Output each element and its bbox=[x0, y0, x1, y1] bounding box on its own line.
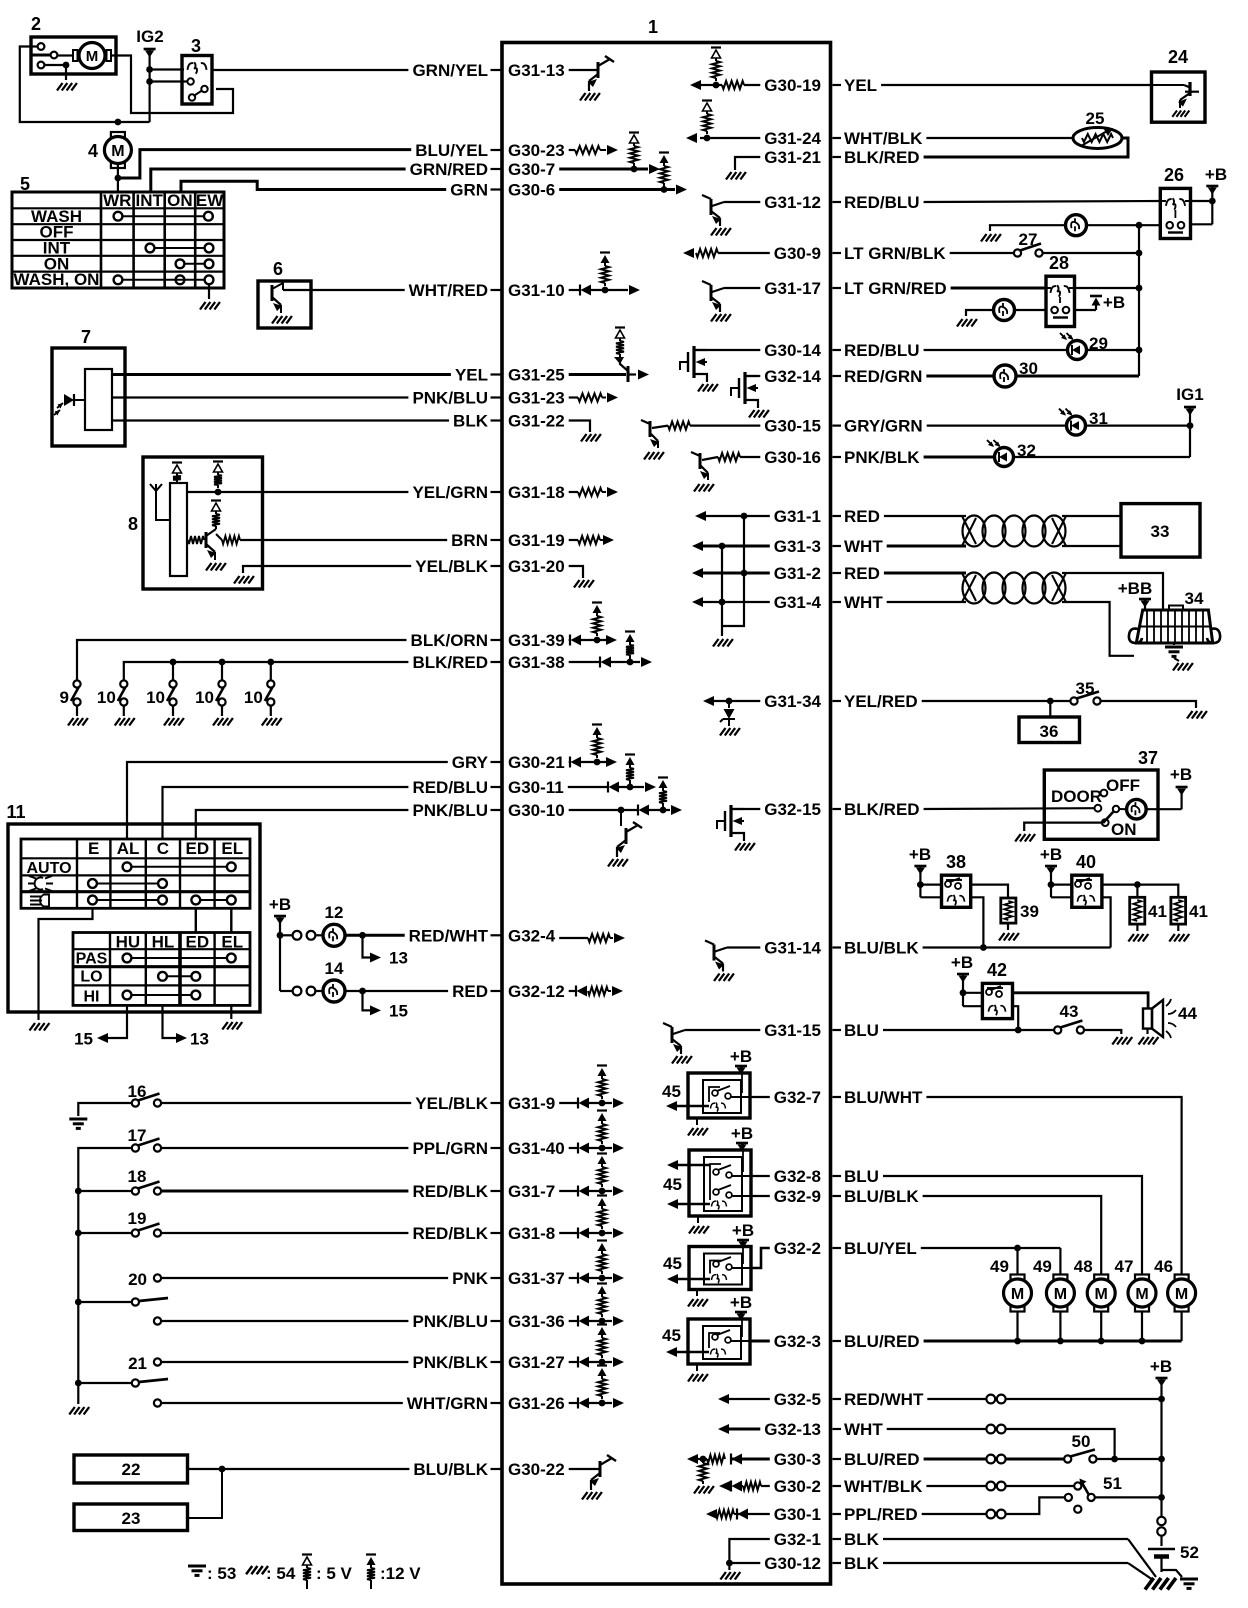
switch 51 contact b bbox=[1065, 1494, 1072, 1501]
svg-text:G31-40: G31-40 bbox=[508, 1139, 565, 1158]
bus from relay 26 contact bbox=[1138, 225, 1140, 376]
svg-text:+B: +B bbox=[909, 845, 931, 864]
svg-text:PNK/BLU: PNK/BLU bbox=[412, 1312, 488, 1331]
twisted pair 2 crossings bbox=[962, 573, 976, 601]
wire BLU/BLK G31-14 bbox=[923, 946, 1111, 948]
wire RED/BLU to box 26 bbox=[924, 201, 1161, 202]
main ground 54 type bbox=[1145, 1578, 1176, 1590]
svg-text:45: 45 bbox=[662, 1326, 681, 1345]
connector pair lamp 12 bbox=[280, 934, 292, 936]
svg-text:G31-22: G31-22 bbox=[508, 412, 565, 431]
svg-text:G32-7: G32-7 bbox=[774, 1088, 821, 1107]
svg-text:G31-26: G31-26 bbox=[508, 1394, 565, 1413]
svg-text:G31-20: G31-20 bbox=[508, 557, 565, 576]
svg-text:G32-2: G32-2 bbox=[774, 1239, 821, 1258]
wire BLU/BLK G32-9 to motor 48 bbox=[923, 1196, 1102, 1275]
svg-text:G30-23: G30-23 bbox=[508, 141, 565, 160]
ground at lamp 28 bbox=[966, 310, 994, 316]
svg-text:41: 41 bbox=[1148, 902, 1167, 921]
wire BLU/YEL G32-2 to motors 49 bbox=[921, 1247, 1061, 1249]
junction BLK/RED switch 10 bbox=[219, 659, 226, 666]
wire BLK/RED to box 37 bbox=[924, 807, 1095, 810]
wire switch20 blade to bus bbox=[78, 1301, 132, 1303]
wire box40 coil to BLU/BLK bbox=[1102, 897, 1111, 947]
svg-text:G31-7: G31-7 bbox=[508, 1182, 555, 1201]
internal G31-15 wire bbox=[685, 1029, 760, 1031]
svg-text:PNK/BLK: PNK/BLK bbox=[412, 1353, 488, 1372]
internal arrow G31-38 bbox=[641, 657, 652, 667]
table 5 contact WASH row bbox=[114, 212, 123, 221]
internal transistor G31-15 bbox=[673, 1030, 685, 1034]
svg-text:G32-4: G32-4 bbox=[508, 926, 556, 945]
svg-text:BLU/BLK: BLU/BLK bbox=[413, 1460, 488, 1479]
link ED upper-lower table 11 bbox=[195, 908, 197, 932]
twisted pair 2 wires bbox=[884, 572, 966, 575]
internal pullup 12V G30-21 bbox=[592, 723, 602, 725]
internal diode G30-10 bbox=[637, 805, 639, 816]
wire BLK/RED to switches 10 bbox=[124, 662, 409, 680]
inner element box 7 bbox=[85, 369, 112, 430]
twisted pair 1 to box 33 bbox=[1062, 515, 1121, 517]
pullup node YEL/GRN box 8 bbox=[213, 460, 223, 462]
wire BLK G32-1 bbox=[883, 1538, 1128, 1540]
internal G31-20 wire to ground bbox=[569, 566, 583, 578]
svg-text:M: M bbox=[1175, 1286, 1188, 1303]
internal G30-21 wire bbox=[569, 761, 570, 763]
ignition key cylinder box 37 bbox=[1044, 770, 1158, 839]
internal transistor G31-12 bbox=[712, 202, 724, 206]
wire BLK G30-12 bbox=[883, 1562, 1128, 1564]
key lamp box 37 bbox=[1127, 799, 1147, 819]
relay box 42 bbox=[982, 983, 1012, 1018]
svg-text:BLK: BLK bbox=[844, 1530, 880, 1549]
svg-text:G30-16: G30-16 bbox=[764, 448, 821, 467]
internal input network G31-7 bbox=[559, 1190, 578, 1192]
internal G31-23 wire bbox=[569, 396, 578, 398]
svg-text:G31-1: G31-1 bbox=[774, 507, 821, 526]
internal resistor G32-4 bbox=[588, 934, 610, 942]
svg-text:M: M bbox=[86, 48, 99, 65]
internal resistor G32-12 bbox=[588, 987, 608, 995]
svg-text:20: 20 bbox=[128, 1270, 147, 1289]
svg-text:52: 52 bbox=[1180, 1543, 1199, 1562]
wire switch21 blade to bus bbox=[78, 1382, 132, 1384]
motor 46 to BLU/RED bus bbox=[1180, 1312, 1182, 1342]
wire G32-3 to relay 45d bbox=[750, 1340, 770, 1343]
wire GRY/GRN to indicator 31 bbox=[927, 425, 1066, 427]
svg-text::12 V: :12 V bbox=[380, 1564, 421, 1583]
table 5 EW ground bbox=[208, 284, 210, 299]
internal transistor under G30-10 bbox=[620, 810, 622, 826]
svg-text:G30-19: G30-19 bbox=[764, 76, 821, 95]
contacts in box 26 bbox=[1166, 222, 1173, 229]
internal resistor G31-19 bbox=[578, 536, 600, 544]
internal G31-19 wire bbox=[569, 539, 578, 541]
svg-text:BLK: BLK bbox=[844, 1554, 880, 1573]
svg-text:HL: HL bbox=[152, 933, 175, 952]
legend ground 53 bbox=[188, 1565, 206, 1568]
table 11 contacts PAS bbox=[123, 954, 132, 963]
svg-text:+B: +B bbox=[1205, 165, 1227, 184]
fog lamp icon table 11 bbox=[28, 876, 53, 891]
wire +B to box 26 contact bbox=[1191, 223, 1213, 225]
wire RED/WHT G32-5 bbox=[927, 1398, 986, 1400]
wire switch18 to bus bbox=[78, 1190, 132, 1192]
svg-text:45: 45 bbox=[662, 1082, 681, 1101]
wire GRN/RED from table INT bbox=[151, 169, 406, 193]
defogger unit box 24 bbox=[1152, 72, 1206, 122]
table 5 contact WASH-ON row bbox=[114, 275, 123, 284]
internal resistor G31-23 bbox=[578, 394, 602, 402]
internal arrow G31-39 bbox=[606, 635, 617, 645]
svg-text:EL: EL bbox=[221, 933, 243, 952]
wire BLU/RED bus G32-3 bbox=[924, 1340, 1182, 1343]
svg-text:21: 21 bbox=[128, 1354, 147, 1373]
battery 52 bbox=[1148, 1548, 1175, 1551]
wire switch17 to G31-40 bbox=[161, 1147, 408, 1149]
coil in box 40 bbox=[1078, 895, 1095, 905]
legend 5V bbox=[302, 1553, 312, 1555]
table 5 contact ON row bbox=[176, 259, 185, 268]
wire BLU/RED G30-3 bbox=[924, 1458, 986, 1461]
unit box 22 bbox=[74, 1455, 188, 1483]
internal arrow G31-3 bbox=[692, 541, 703, 551]
internal pullup 5V G31-24 bbox=[702, 99, 712, 101]
ground resistor 41b bbox=[1177, 924, 1179, 931]
internal arrow G32-12 bbox=[612, 986, 623, 996]
svg-text:G32-1: G32-1 bbox=[774, 1530, 821, 1549]
svg-text:+B: +B bbox=[1150, 1357, 1172, 1376]
internal bus A G31-1/G31-2 bbox=[722, 516, 744, 626]
internal arrow G30-3 bbox=[698, 1458, 707, 1460]
table 11 lower bbox=[73, 933, 250, 1006]
svg-text:11: 11 bbox=[6, 802, 25, 822]
svg-text:GRN/RED: GRN/RED bbox=[410, 160, 488, 179]
svg-text:G31-19: G31-19 bbox=[508, 531, 565, 550]
wire switch20 to G31-37 bbox=[161, 1277, 448, 1279]
internal G30-1 wire bbox=[737, 1513, 770, 1515]
legend 12V bbox=[366, 1553, 376, 1555]
internal diode G31-10 bbox=[579, 285, 581, 296]
svg-text:G30-12: G30-12 bbox=[764, 1554, 821, 1573]
svg-text:PPL/GRN: PPL/GRN bbox=[412, 1139, 488, 1158]
svg-text:49: 49 bbox=[1033, 1257, 1052, 1276]
heater relay box 26 bbox=[1160, 188, 1190, 238]
internal G30-22 wire bbox=[569, 1468, 600, 1470]
internal arrow G30-9 left bbox=[683, 248, 694, 258]
relay box 40 bbox=[1072, 875, 1102, 907]
svg-text:HU: HU bbox=[116, 933, 141, 952]
svg-text:8: 8 bbox=[128, 514, 138, 534]
svg-text:46: 46 bbox=[1154, 1257, 1173, 1276]
internal G31-39 wire bbox=[569, 639, 570, 641]
svg-text:PNK/BLU: PNK/BLU bbox=[412, 801, 488, 820]
internal G30-2 wire bbox=[761, 1485, 770, 1487]
internal G31-34 wire bbox=[714, 700, 760, 702]
svg-text:BLK/RED: BLK/RED bbox=[412, 653, 488, 672]
ground relay 45d bbox=[696, 1364, 698, 1371]
svg-text:G31-25: G31-25 bbox=[508, 366, 565, 385]
internal resistor chain to G31-38 bbox=[625, 630, 635, 632]
svg-text:BLK/RED: BLK/RED bbox=[844, 800, 920, 819]
horn 44 bbox=[1143, 1009, 1152, 1029]
internal G31-10 wire bbox=[569, 289, 580, 291]
svg-text:G31-2: G31-2 bbox=[774, 564, 821, 583]
wire BLU G32-8 to motor 47 bbox=[883, 1176, 1142, 1275]
svg-text:G30-14: G30-14 bbox=[764, 341, 821, 360]
internal FET G32-15 bbox=[729, 805, 732, 837]
svg-text:G30-7: G30-7 bbox=[508, 160, 555, 179]
svg-text:10: 10 bbox=[195, 688, 214, 707]
wire box38 to resistor 39 bbox=[971, 885, 1008, 898]
switch 20 lower contact bbox=[154, 1317, 161, 1324]
svg-text:BRN: BRN bbox=[451, 531, 488, 550]
wire switch to motor box 2 bbox=[57, 54, 73, 56]
svg-text:10: 10 bbox=[244, 688, 263, 707]
table 11 contacts head bbox=[88, 896, 97, 905]
internal transistor G30-22 bbox=[599, 1461, 602, 1477]
svg-text:+B: +B bbox=[731, 1124, 753, 1143]
wire switch 50 to +B bbox=[1097, 1458, 1162, 1460]
internal G31-21 wire to ground bbox=[735, 157, 760, 170]
svg-text:WR: WR bbox=[103, 191, 131, 210]
internal G31-17 wire bbox=[724, 287, 760, 289]
internal resistor G30-2 bbox=[743, 1482, 761, 1490]
ground resistor 39 bbox=[1007, 923, 1009, 930]
internal arrow G32-5 bbox=[718, 1394, 729, 1404]
svg-text:G32-5: G32-5 bbox=[774, 1390, 821, 1409]
contacts in box 38 bbox=[945, 881, 951, 887]
wire YEL to box 24 bbox=[881, 84, 1151, 86]
svg-text:ED: ED bbox=[185, 933, 209, 952]
svg-text:G30-15: G30-15 bbox=[764, 417, 821, 436]
internal G32-5 wire bbox=[729, 1398, 770, 1400]
table 11 upper bbox=[21, 839, 250, 908]
svg-text:G31-15: G31-15 bbox=[764, 1021, 821, 1040]
svg-text:G31-18: G31-18 bbox=[508, 483, 565, 502]
svg-text:WHT: WHT bbox=[844, 1420, 883, 1439]
element box 8 bbox=[170, 483, 187, 576]
wire WHT/BLK G30-2 bbox=[926, 1485, 986, 1487]
internal arrow G31-18 bbox=[607, 487, 618, 497]
wire lamp 12 to G32-4 bbox=[345, 934, 405, 937]
svg-text:G32-13: G32-13 bbox=[764, 1420, 821, 1439]
svg-text:9: 9 bbox=[60, 688, 69, 707]
svg-text:G32-12: G32-12 bbox=[508, 982, 565, 1001]
table 11 contacts fog bbox=[88, 879, 97, 888]
relay 45b in box bbox=[689, 1150, 751, 1216]
+B at relay 28 bbox=[1075, 309, 1097, 311]
svg-text:6: 6 bbox=[273, 259, 283, 279]
svg-text:M: M bbox=[1054, 1286, 1067, 1303]
rear defogger relay box 28 bbox=[1046, 276, 1075, 326]
wire switch19 to G31-8 bbox=[161, 1232, 408, 1234]
svg-text:49: 49 bbox=[990, 1257, 1009, 1276]
wire WHT/BLK to resistor 25 bbox=[926, 137, 1073, 139]
svg-text:LT GRN/RED: LT GRN/RED bbox=[844, 279, 947, 298]
internal G31-25 wire bbox=[569, 373, 626, 376]
internal arrow G30-2 bbox=[726, 1485, 731, 1487]
junction BLK/RED switch 10 bbox=[267, 659, 274, 666]
internal ground G31-22 bbox=[581, 434, 601, 442]
junction IG2 to relay 3 pin 2 bbox=[146, 78, 153, 85]
internal arrow G31-4 bbox=[692, 597, 703, 607]
svg-text:G31-14: G31-14 bbox=[764, 939, 821, 958]
internal arrow G31-19 bbox=[603, 535, 614, 545]
svg-text:43: 43 bbox=[1060, 1002, 1079, 1021]
svg-text:WHT/GRN: WHT/GRN bbox=[407, 1394, 488, 1413]
transistor box 8 bbox=[205, 532, 208, 548]
motor 47 to BLU/RED bus bbox=[1141, 1312, 1143, 1342]
svg-text:G31-38: G31-38 bbox=[508, 653, 565, 672]
wire pair2 low to connector 34 bbox=[1062, 602, 1134, 656]
wire switch16 to G31-9 bbox=[161, 1102, 411, 1104]
svg-text:LO: LO bbox=[80, 969, 102, 986]
svg-text:+B: +B bbox=[730, 1047, 752, 1066]
internal diode G30-11 bbox=[607, 782, 609, 793]
svg-text:28: 28 bbox=[1049, 253, 1069, 273]
emitter box 8 bbox=[206, 544, 215, 552]
wire LT GRN/RED to box 28 bbox=[951, 287, 1046, 290]
twisted pair 1 crossings bbox=[962, 516, 976, 544]
intermittent unit box 6 bbox=[258, 281, 311, 328]
svg-text:G31-37: G31-37 bbox=[508, 1269, 565, 1288]
svg-text:G30-2: G30-2 bbox=[774, 1477, 821, 1496]
svg-text:G30-10: G30-10 bbox=[508, 801, 565, 820]
table 5 contact INT row bbox=[146, 244, 155, 253]
internal resistor chain to G30-10 bbox=[658, 776, 668, 778]
svg-text:25: 25 bbox=[1086, 109, 1105, 128]
washer motor box 2 bbox=[31, 37, 116, 74]
svg-text:OFF: OFF bbox=[1106, 776, 1140, 795]
internal pullup 5V G30-19 bbox=[712, 84, 722, 86]
svg-text:GRN: GRN bbox=[450, 181, 488, 200]
wire BLK/ORN to switch 9 bbox=[77, 640, 407, 680]
svg-text:G31-9: G31-9 bbox=[508, 1094, 555, 1113]
internal transistor G30-15 bbox=[652, 426, 668, 428]
wire RED/BLU to indicator 29 bbox=[924, 349, 1067, 351]
svg-text:PNK: PNK bbox=[452, 1269, 489, 1288]
svg-text:12: 12 bbox=[325, 903, 344, 922]
svg-text:42: 42 bbox=[987, 960, 1007, 980]
wire switch 43 to ground bbox=[1084, 1030, 1121, 1034]
svg-text:G31-21: G31-21 bbox=[764, 148, 821, 167]
internal G31-4 wire bbox=[703, 601, 770, 603]
wires +B to box 42 bbox=[963, 992, 982, 994]
wire YEL/GRN from box 8 bbox=[187, 491, 408, 493]
wire node to box 36 bbox=[1049, 701, 1051, 717]
internal G32-1 wire bbox=[729, 1539, 769, 1563]
svg-text:BLU/RED: BLU/RED bbox=[844, 1450, 920, 1469]
internal diode G30-1 bbox=[736, 1509, 738, 1520]
internal arrow G31-24 left bbox=[686, 133, 697, 143]
svg-text:M: M bbox=[1135, 1286, 1148, 1303]
svg-text:ED: ED bbox=[185, 839, 209, 858]
internal G31-13 wire bbox=[569, 69, 598, 71]
switch 51 contact a bbox=[1074, 1482, 1081, 1489]
wire RED/BLU to table 11 C bbox=[163, 787, 409, 839]
wire PNK/BLK to indicator 32 bbox=[924, 456, 995, 459]
internal G30-19 wire bbox=[744, 84, 760, 86]
svg-text:13: 13 bbox=[389, 949, 408, 968]
internal arrow G30-21 bbox=[606, 757, 617, 767]
wire box28 coil to bus bbox=[1075, 287, 1140, 289]
wire box37 ON to ground bbox=[1024, 823, 1102, 831]
svg-text:YEL: YEL bbox=[455, 366, 488, 385]
svg-text:M: M bbox=[111, 143, 124, 160]
internal resistor G31-18 bbox=[578, 488, 602, 496]
wire pair2 to connector 34 bbox=[1062, 573, 1163, 610]
svg-text:G30-21: G30-21 bbox=[508, 753, 565, 772]
unit box 36 bbox=[1019, 717, 1080, 743]
table 11 contacts HI bbox=[123, 991, 132, 1000]
internal diode G30-3 bbox=[730, 1454, 732, 1465]
internal G32-4 wire bbox=[559, 937, 588, 939]
ECU box 1 bbox=[502, 43, 831, 1585]
internal G31-24 wire bbox=[700, 137, 760, 139]
coil in box 3 bbox=[188, 62, 207, 73]
wire YEL/RED from G31-34 bbox=[922, 700, 1071, 702]
svg-text:GRY: GRY bbox=[452, 753, 489, 772]
wire YEL from box 7 bbox=[112, 373, 451, 376]
internal G31-1 wire bbox=[706, 515, 770, 517]
wire PPL/RED G30-1 bbox=[922, 1513, 986, 1515]
internal G31-2 wire bbox=[703, 572, 770, 575]
svg-text:HI: HI bbox=[84, 988, 100, 1005]
wire lamp 30 to bus bbox=[1016, 375, 1139, 378]
svg-text:RED/BLU: RED/BLU bbox=[844, 193, 920, 212]
junction IG2 to relay 3 bbox=[146, 66, 153, 73]
svg-text:RED/BLK: RED/BLK bbox=[412, 1224, 488, 1243]
indicator lamp at relay 28 bbox=[994, 300, 1015, 321]
ground at lamp 26 bbox=[990, 225, 1066, 231]
washer switch contacts in box 2 bbox=[38, 43, 45, 50]
wiper relay box 3 bbox=[182, 56, 212, 105]
arrow 15 from lamp 14 bbox=[363, 991, 378, 1010]
internal transistor G30-16 bbox=[702, 457, 718, 460]
svg-text:WHT/BLK: WHT/BLK bbox=[844, 1477, 923, 1496]
wire PNK/BLU from box 7 bbox=[112, 396, 408, 398]
internal resistor at G30-23 bbox=[575, 146, 600, 154]
audio unit box 33 bbox=[1121, 504, 1200, 557]
internal FET G32-14 bbox=[743, 372, 746, 404]
ground in box 2 bbox=[44, 65, 66, 80]
svg-text:BLU/RED: BLU/RED bbox=[844, 1332, 920, 1351]
svg-text:WHT/RED: WHT/RED bbox=[409, 281, 488, 300]
internal diode G31-38 bbox=[599, 657, 601, 668]
resistor box 41b bbox=[1171, 897, 1186, 924]
wire BLU/YEL from motor4 node bbox=[118, 150, 411, 178]
svg-text:15: 15 bbox=[74, 1030, 93, 1049]
internal input network G31-9 bbox=[559, 1102, 578, 1104]
coil in box 28 bbox=[1051, 285, 1070, 296]
internal arrow G30-10 bbox=[671, 805, 682, 815]
wires +B to box 38 bbox=[920, 883, 941, 885]
internal G30-6 wire bbox=[559, 188, 675, 191]
head lamp icon table 11 bbox=[30, 895, 49, 907]
internal transistor at G31-13 bbox=[597, 62, 600, 78]
svg-text:+BB: +BB bbox=[1118, 579, 1152, 598]
internal diode G31-39 bbox=[569, 635, 571, 646]
internal G32-13 wire bbox=[729, 1428, 760, 1431]
svg-text:+B: +B bbox=[1040, 845, 1062, 864]
wire motor4 to washer table bbox=[117, 164, 119, 193]
svg-text:YEL: YEL bbox=[844, 76, 877, 95]
svg-text:GRN/YEL: GRN/YEL bbox=[412, 61, 488, 80]
svg-text:G31-39: G31-39 bbox=[508, 631, 565, 650]
connector pair lamp 14 bbox=[280, 990, 292, 992]
relay box 38 bbox=[942, 875, 971, 907]
